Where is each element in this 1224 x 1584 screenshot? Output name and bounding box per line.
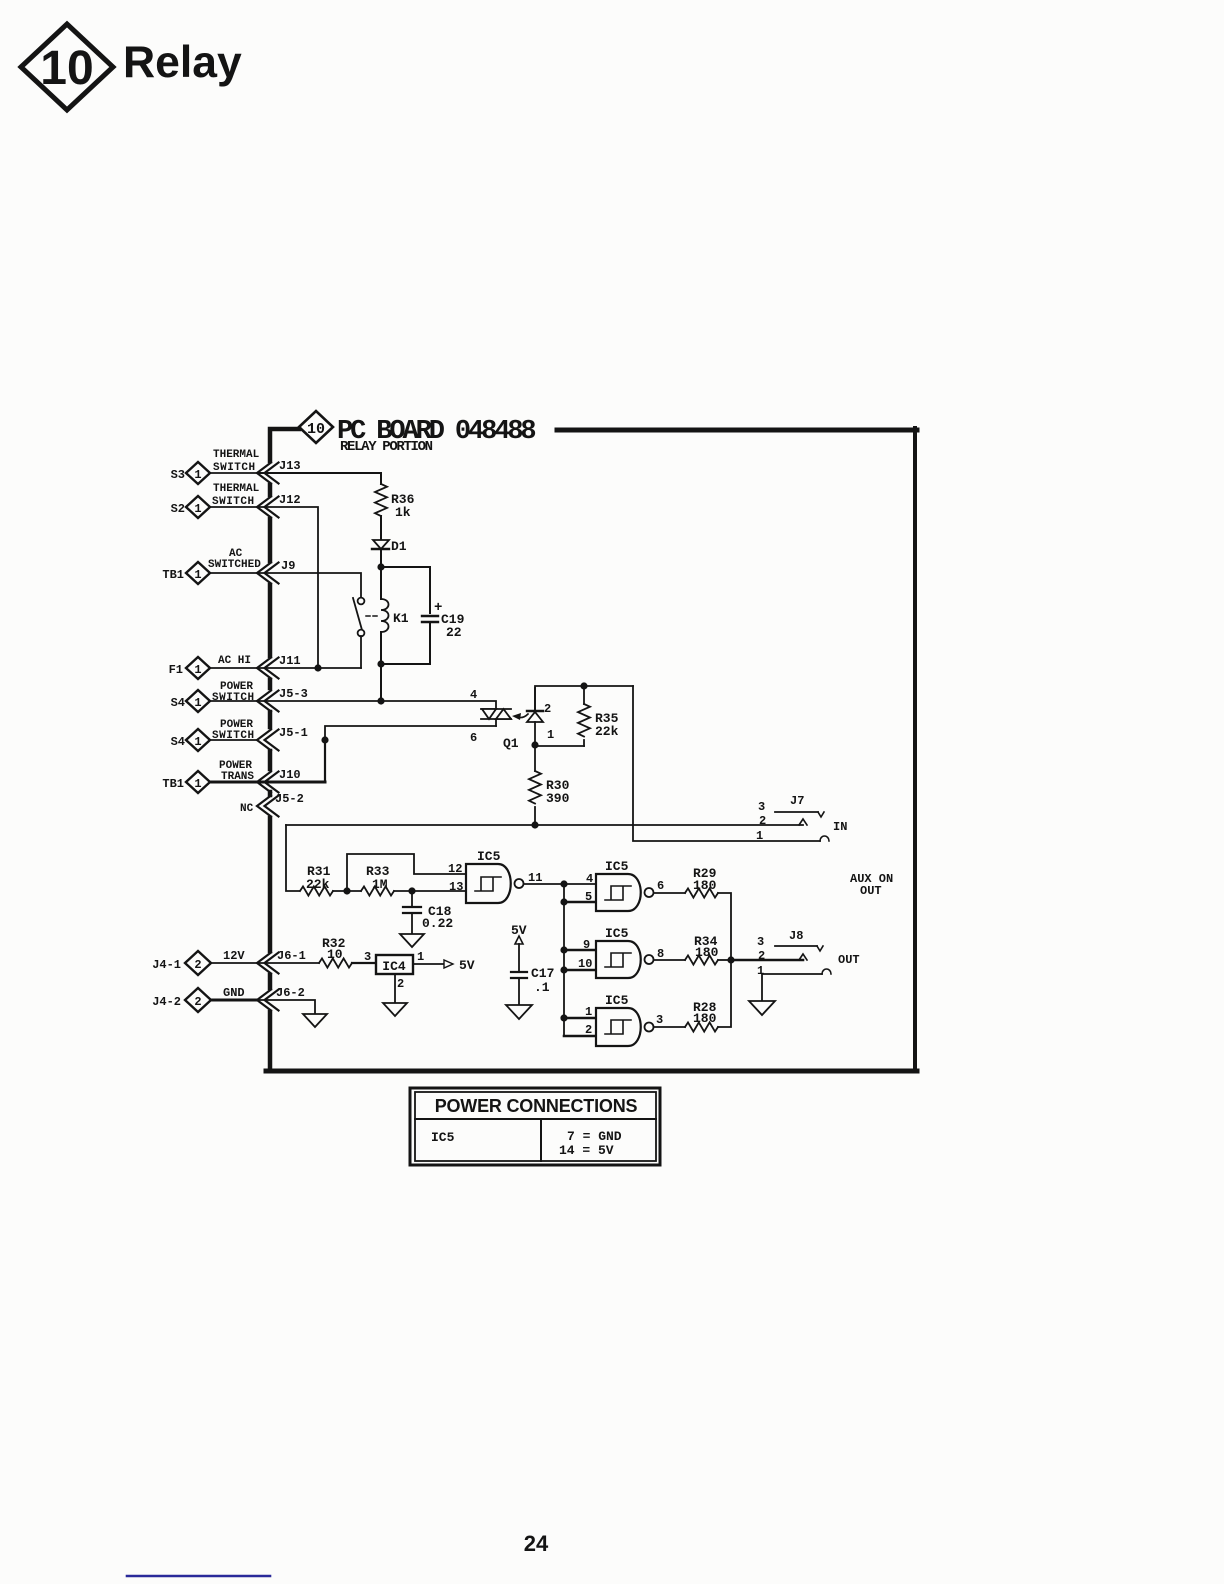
- PC board outline: right border: [913, 428, 917, 1071]
- node J12/J11 junction: [314, 664, 321, 671]
- svg-text:D1: D1: [391, 539, 407, 554]
- wire J12 down to J11 line: [258, 507, 318, 668]
- svg-text:THERMAL: THERMAL: [213, 483, 260, 495]
- node LED/R30/R35: [531, 741, 538, 748]
- svg-text:J6-1: J6-1: [277, 949, 306, 963]
- node bus pin4: [560, 880, 567, 887]
- wire S3 to J13: [210, 472, 257, 474]
- wire C19 to K1 bottom node: [385, 622, 430, 664]
- capacitor C19 (electrolytic): [422, 616, 438, 622]
- svg-text:5V: 5V: [459, 958, 475, 973]
- svg-text:J12: J12: [279, 493, 301, 507]
- svg-text:3: 3: [758, 800, 765, 814]
- resistor R32: [319, 958, 352, 967]
- wire S4 to J5-3: [210, 700, 257, 702]
- capacitor C17: [511, 972, 527, 1004]
- svg-text:J11: J11: [279, 654, 301, 668]
- svg-text:390: 390: [546, 791, 570, 806]
- ground below J8: [749, 1001, 775, 1015]
- svg-text:2: 2: [544, 702, 551, 716]
- svg-text:22k: 22k: [306, 877, 330, 892]
- resistor R33: [361, 886, 394, 895]
- svg-text:1: 1: [194, 568, 201, 582]
- svg-text:2: 2: [759, 814, 766, 828]
- node bus pin10: [560, 966, 567, 973]
- svg-text:POWER CONNECTIONS: POWER CONNECTIONS: [435, 1096, 638, 1116]
- svg-text:24: 24: [524, 1531, 549, 1556]
- svg-text:1: 1: [547, 728, 554, 742]
- J8 pin 3 stub: [775, 946, 823, 951]
- svg-text:7 = GND: 7 = GND: [567, 1129, 622, 1144]
- svg-text:1: 1: [194, 696, 201, 710]
- svg-text:IC4: IC4: [382, 959, 406, 974]
- J7 pin 1 sleeve mark: [820, 836, 829, 841]
- mechanical link to coil (dashed): [366, 615, 378, 617]
- wire R28 up to J8 bus: [718, 960, 731, 1027]
- resistor R29: [685, 888, 718, 897]
- IC5 gate B (4,5 -> 6): [596, 874, 654, 911]
- capacitor C18: [403, 891, 421, 933]
- svg-text:8: 8: [657, 947, 664, 961]
- svg-text:1k: 1k: [395, 505, 411, 520]
- svg-text:6: 6: [470, 731, 477, 745]
- footer blue line: [127, 1575, 270, 1578]
- connector pin J13: [257, 463, 279, 484]
- svg-text:S3: S3: [171, 468, 185, 482]
- wire bus to gate B pins: [564, 902, 596, 1018]
- connector pin J10: [257, 772, 279, 793]
- svg-text:C17: C17: [531, 966, 554, 981]
- svg-text:3: 3: [757, 935, 764, 949]
- svg-text:.1: .1: [534, 980, 550, 995]
- wire contact to J11 line: [360, 636, 362, 668]
- wire J5-3 to triac pin 4: [258, 701, 496, 709]
- svg-text:12V: 12V: [223, 949, 245, 963]
- wire R32 to IC4: [352, 962, 376, 964]
- wire D1 to node: [380, 549, 382, 567]
- connector pin J11: [257, 658, 279, 679]
- wire S4 to J5-1: [210, 739, 257, 741]
- wire J8 pin 2 (bold): [731, 959, 803, 962]
- wire K1 top node to C19: [381, 567, 430, 613]
- svg-text:TB1: TB1: [162, 568, 184, 582]
- wire K1 coil to bottom node: [380, 632, 382, 664]
- wire IN line down to R31: [286, 825, 299, 891]
- J7 pin 2 tip mark: [799, 819, 807, 825]
- wire triac to pin 6 line: [495, 719, 497, 726]
- wire J9 to relay contact: [258, 573, 361, 597]
- svg-text:S4: S4: [171, 735, 185, 749]
- svg-text:1M: 1M: [372, 877, 388, 892]
- wire R33 to pin 13: [394, 890, 466, 892]
- IC5 gate A (12,13 -> 11): [466, 864, 524, 903]
- wire R31 to R33: [333, 890, 361, 892]
- wire LED cathode node to R35 bottom: [535, 745, 584, 747]
- resistor R31: [300, 886, 333, 895]
- resistor R34: [685, 955, 718, 964]
- svg-text:4: 4: [470, 688, 477, 702]
- svg-text:IC5: IC5: [605, 993, 629, 1008]
- svg-text:IC5: IC5: [431, 1130, 455, 1145]
- svg-text:2: 2: [194, 958, 201, 972]
- svg-text:3: 3: [364, 950, 371, 964]
- relay contact K1 (switch): [353, 598, 364, 637]
- J7 pin 3 stub: [775, 812, 824, 817]
- svg-text:2: 2: [397, 977, 404, 991]
- svg-text:1: 1: [194, 777, 201, 791]
- node R33/C18: [408, 887, 415, 894]
- node R31/R33/pin12: [343, 887, 350, 894]
- node R30 bottom on IN line: [531, 821, 538, 828]
- wire IC4 pin2 to ground: [394, 974, 396, 1002]
- PC BOARD frame: header diamond: [299, 411, 333, 443]
- IC5 gate C (9,10 -> 8): [596, 941, 654, 978]
- wire S2 to J12: [210, 506, 257, 508]
- svg-text:2: 2: [758, 949, 765, 963]
- svg-text:10: 10: [307, 421, 325, 438]
- wire TB1 to J10 (bold): [210, 781, 257, 784]
- svg-text:22k: 22k: [595, 724, 619, 739]
- wire triac pin 6 to J5-1 junction: [325, 726, 496, 740]
- svg-text:J10: J10: [279, 768, 301, 782]
- node bus pin5: [560, 898, 567, 905]
- svg-text:OUT: OUT: [860, 884, 882, 898]
- node K1 top: [377, 563, 384, 570]
- connector S4 (power switch, J5-1): [171, 729, 210, 751]
- connector S3 (thermal switch): [171, 462, 210, 484]
- POWER CONNECTIONS TABLE: [410, 1088, 660, 1165]
- svg-text:J5-2: J5-2: [275, 792, 304, 806]
- wire J7 pin 1 from top node: [633, 686, 820, 841]
- svg-text:9: 9: [583, 938, 590, 952]
- svg-text:13: 13: [449, 880, 463, 894]
- wire gate B out to R29: [654, 892, 685, 894]
- svg-text:5: 5: [585, 890, 592, 904]
- connector J4-1 (12V): [152, 951, 211, 975]
- svg-text:12: 12: [448, 862, 462, 876]
- svg-text:SWITCH: SWITCH: [212, 692, 255, 704]
- node J5-1 junction: [321, 736, 328, 743]
- wire J8 pin 1 to ground: [762, 974, 822, 1000]
- svg-text:RELAY PORTION: RELAY PORTION: [340, 439, 433, 455]
- svg-text:IN: IN: [833, 820, 847, 834]
- PC board outline: top border: [557, 428, 917, 433]
- connector S2 (thermal switch): [171, 496, 210, 518]
- connector J4-2 (GND): [152, 988, 211, 1012]
- svg-text:J9: J9: [281, 559, 295, 573]
- svg-text:2: 2: [585, 1023, 592, 1037]
- svg-text:1: 1: [757, 964, 764, 978]
- svg-text:NC: NC: [240, 803, 254, 815]
- resistor R28: [685, 1022, 718, 1031]
- svg-text:J5-3: J5-3: [279, 687, 308, 701]
- resistor R36: [375, 484, 387, 516]
- J8 pin 1 sleeve mark: [822, 969, 831, 974]
- svg-text:J6-2: J6-2: [276, 986, 305, 1000]
- svg-text:K1: K1: [393, 611, 409, 626]
- wire top node (LED anode to R35 top, to J7-1 drop): [535, 686, 633, 709]
- svg-text:1: 1: [194, 468, 201, 482]
- connector TB1 (power trans): [162, 771, 210, 793]
- resistor R35: [578, 686, 590, 746]
- ground below J6-2: [303, 1014, 327, 1027]
- svg-text:1: 1: [756, 829, 763, 843]
- ground below C17: [506, 1005, 532, 1019]
- svg-text:180: 180: [693, 878, 717, 893]
- svg-text:22: 22: [446, 625, 462, 640]
- svg-text:1: 1: [585, 1005, 592, 1019]
- PC board outline: bottom border: [266, 1069, 917, 1074]
- ground below C18: [400, 934, 424, 947]
- wire node to K1 coil: [380, 567, 382, 599]
- svg-text:14 = 5V: 14 = 5V: [559, 1143, 614, 1158]
- connector F1 (AC HI): [169, 657, 210, 679]
- svg-text:AC HI: AC HI: [218, 655, 251, 667]
- svg-text:180: 180: [695, 945, 719, 960]
- node J8 bus: [727, 956, 734, 963]
- PC board outline: top-left corner stub: [270, 429, 299, 461]
- diode D1: [372, 540, 389, 549]
- connector pin J12: [257, 497, 279, 518]
- connector pin J5-1: [257, 730, 279, 751]
- svg-text:J13: J13: [279, 459, 301, 473]
- wire gate C out to R34: [654, 959, 685, 961]
- wire J4-2 to J6-2 (bold): [211, 999, 257, 1002]
- node K1 bottom: [377, 660, 384, 667]
- svg-text:1: 1: [417, 950, 424, 964]
- svg-text:10: 10: [327, 947, 343, 962]
- wire R34 to J8 bus: [718, 959, 731, 961]
- svg-text:180: 180: [693, 1011, 717, 1026]
- wire J6-2 to ground: [258, 1000, 315, 1013]
- svg-text:IC5: IC5: [605, 926, 629, 941]
- svg-text:Q1: Q1: [503, 736, 519, 751]
- svg-text:J8: J8: [789, 929, 803, 943]
- wire IC4 out with arrow to 5V: [413, 960, 453, 968]
- regulator IC4: [376, 955, 413, 974]
- svg-text:6: 6: [657, 879, 664, 893]
- wire J6-1 to R32: [258, 962, 319, 964]
- connector pin J9: [257, 563, 279, 584]
- node R35 top: [580, 682, 587, 689]
- svg-text:10: 10: [40, 42, 93, 95]
- relay coil K1: [381, 599, 389, 632]
- svg-text:THERMAL: THERMAL: [213, 449, 260, 461]
- IC5 gate D (1,2 -> 3): [596, 1008, 654, 1046]
- svg-text:F1: F1: [169, 663, 183, 677]
- svg-text:1: 1: [194, 663, 201, 677]
- input bus vertical: [563, 884, 565, 1036]
- svg-text:3: 3: [656, 1013, 663, 1027]
- svg-text:IC5: IC5: [477, 849, 501, 864]
- wire TB1 to J9: [210, 572, 257, 574]
- node bus pin9: [560, 946, 567, 953]
- section diamond 10 logo: [21, 24, 113, 110]
- svg-text:IC5: IC5: [605, 859, 629, 874]
- opto arrow: [512, 713, 528, 720]
- opto LED of Q1: [527, 688, 543, 745]
- wire gate A output to bus: [524, 883, 596, 885]
- ground below IC4: [383, 1003, 407, 1016]
- wire F1 to J11: [210, 667, 257, 669]
- svg-text:J4-2: J4-2: [152, 995, 181, 1009]
- resistor R30: [529, 745, 541, 825]
- svg-text:S4: S4: [171, 696, 185, 710]
- wire J4-1 to J6-1: [211, 962, 257, 964]
- wire feedback to pin 12: [347, 854, 466, 891]
- svg-text:1: 1: [194, 735, 201, 749]
- node J5-3 / K1: [377, 697, 384, 704]
- svg-text:0.22: 0.22: [422, 916, 453, 931]
- svg-text:GND: GND: [223, 986, 245, 1000]
- svg-text:Relay: Relay: [123, 38, 242, 87]
- connector pin J5-3: [257, 691, 279, 712]
- svg-text:OUT: OUT: [838, 953, 860, 967]
- svg-text:2: 2: [194, 995, 201, 1009]
- wire R36 to D1: [380, 516, 382, 539]
- wire J5-1 node down to J10 line (bold): [324, 740, 326, 782]
- connector pin J6-2: [257, 990, 279, 1011]
- svg-text:J5-1: J5-1: [279, 726, 308, 740]
- PC board outline: left border segments: [268, 485, 273, 1071]
- svg-text:TB1: TB1: [162, 777, 184, 791]
- wire J11: [258, 667, 361, 669]
- svg-text:1: 1: [194, 502, 201, 516]
- svg-text:J4-1: J4-1: [152, 958, 181, 972]
- connector S4 (power switch, J5-3): [171, 690, 210, 712]
- svg-text:11: 11: [528, 871, 542, 885]
- wire gate D out to R28: [654, 1026, 685, 1028]
- svg-text:S2: S2: [171, 502, 185, 516]
- connector TB1 (AC switched): [162, 562, 210, 584]
- svg-text:4: 4: [586, 872, 593, 886]
- wire R29 to J8 bus: [718, 893, 731, 960]
- svg-text:SWITCHED: SWITCHED: [208, 559, 261, 571]
- wire J13 to R36 top: [258, 473, 381, 484]
- J8 pin 2 tip mark: [799, 954, 807, 960]
- node bus pin1: [560, 1014, 567, 1021]
- opto-triac Q1 output: [481, 709, 511, 719]
- svg-text:10: 10: [578, 957, 592, 971]
- wire IN line (J7 pin 2): [286, 824, 803, 826]
- wire K1 bottom node to J5-3 line: [380, 664, 382, 701]
- connector pin J6-1: [257, 953, 279, 974]
- svg-text:J7: J7: [790, 794, 804, 808]
